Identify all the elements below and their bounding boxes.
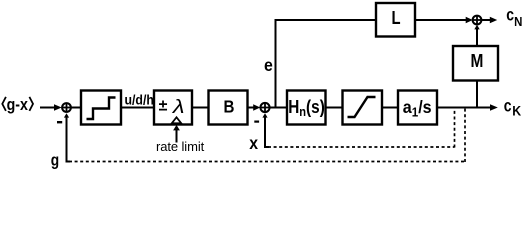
svg-text:g: g [51, 151, 59, 170]
svg-text:±: ± [159, 98, 168, 115]
svg-text:N: N [514, 14, 522, 29]
svg-text:u/d/h: u/d/h [124, 92, 153, 108]
svg-text:L: L [391, 8, 400, 29]
svg-text:K: K [512, 103, 522, 119]
svg-text:B: B [223, 96, 234, 117]
svg-text:c: c [506, 6, 514, 25]
svg-text:λ: λ [172, 96, 185, 117]
svg-text:Hn(s): Hn(s) [288, 97, 325, 120]
svg-text:rate limit: rate limit [156, 139, 205, 154]
svg-text:g-x: g-x [7, 96, 29, 114]
svg-text:e: e [264, 55, 273, 75]
svg-text:M: M [471, 51, 484, 72]
svg-text:c: c [504, 97, 512, 116]
svg-text:x: x [249, 133, 258, 153]
